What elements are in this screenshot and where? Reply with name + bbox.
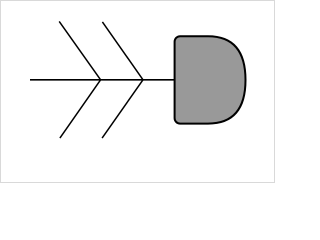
fish head (gray D-shape) — [175, 36, 246, 123]
rib upper-left (chevron 1 top barb) — [59, 21, 100, 79]
rib lower-right (chevron 2 bottom barb) — [102, 80, 143, 138]
rib upper-right (chevron 2 top barb) — [102, 22, 143, 80]
fishbone spine — [30, 79, 176, 81]
rib lower-left (chevron 1 bottom barb) — [60, 80, 101, 138]
